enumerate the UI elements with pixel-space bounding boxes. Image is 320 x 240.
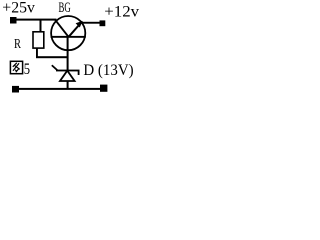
wire: horizontal from R bottom to base node — [36, 56, 69, 58]
transistor BG body circle — [51, 16, 85, 50]
resistor R body — [33, 32, 44, 48]
zener D anode triangle — [60, 71, 75, 81]
svg-text:+25v: +25v — [2, 0, 35, 17]
wire: zener anode down to bottom rail — [67, 81, 69, 89]
transistor BG collector lead (left diagonal) — [54, 19, 69, 38]
svg-text:BG: BG — [59, 0, 71, 16]
node square: bottom left terminal — [12, 86, 19, 93]
svg-text:+12v: +12v — [104, 3, 139, 20]
zener D cathode right bent tail — [78, 70, 80, 75]
node square: bottom right terminal — [100, 85, 107, 92]
svg-text:5: 5 — [24, 61, 30, 78]
svg-text:R: R — [14, 37, 21, 52]
wire: bottom rail — [14, 88, 104, 90]
node square: +12v terminal — [100, 20, 106, 26]
transistor BG emitter lead (right diagonal) — [68, 21, 83, 38]
svg-text:D (13V): D (13V) — [83, 62, 133, 79]
wire: base lead down to zener D — [67, 37, 69, 70]
label 图 (figure character, drawn) — [10, 61, 22, 73]
transistor BG emitter arrowhead — [76, 21, 83, 28]
wire: resistor R bottom lead — [36, 49, 38, 58]
zener D cathode left bent tail — [51, 65, 58, 71]
transistor BG base bar — [51, 36, 86, 38]
node square: +25v terminal — [10, 17, 17, 24]
wire: drop from +25v rail to resistor R top — [40, 20, 42, 32]
zener D cathode bar — [56, 70, 80, 72]
wire: emitter to +12v terminal — [82, 22, 101, 24]
wire: +25v rail to transistor emitter — [14, 19, 57, 21]
